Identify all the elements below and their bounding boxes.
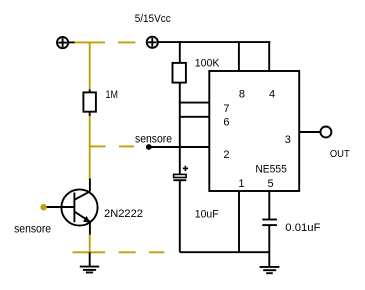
svg-text:6: 6	[223, 117, 229, 129]
wire pin 6	[179, 116, 209, 118]
svg-text:8: 8	[239, 89, 245, 101]
svg-text:0.01uF: 0.01uF	[285, 222, 320, 234]
wire pin 5 down	[268, 191, 270, 220]
svg-text:4: 4	[269, 89, 275, 101]
wire sensore dashed yellow	[90, 145, 134, 147]
capacitor C1 10uF electrolytic	[183, 166, 188, 171]
terminal T2 (circle with plus, 5/15Vcc)	[147, 37, 158, 48]
wire ground drop left	[89, 252, 91, 266]
svg-text:2N2222: 2N2222	[104, 208, 143, 220]
wire 100K down to capacitor C1	[179, 83, 181, 175]
svg-text:1M: 1M	[106, 89, 118, 101]
svg-text:10uF: 10uF	[195, 208, 219, 220]
svg-text:5: 5	[267, 178, 273, 190]
wire drop to 100K	[179, 42, 181, 63]
wire stub from T1	[68, 41, 75, 43]
wire left branch yellow (top rail to 1M)	[89, 42, 91, 90]
svg-text:OUT: OUT	[330, 149, 350, 160]
wire 1M down to transistor	[89, 116, 91, 179]
wire pin 7	[179, 102, 209, 104]
terminal OUT circle	[320, 127, 331, 138]
svg-text:2: 2	[223, 149, 229, 161]
capacitor C2 0.01uF	[262, 220, 277, 226]
wire below C1 to bottom rail	[179, 180, 181, 252]
svg-text:1: 1	[238, 178, 244, 190]
wire pin8 drop	[238, 42, 240, 71]
transistor Q1 2N2222	[61, 189, 97, 225]
wire pin 3 out	[299, 131, 320, 133]
wire bottom rail yellow dashed	[73, 251, 165, 253]
resistor R2 1M	[89, 90, 91, 93]
svg-text:sensore: sensore	[14, 222, 51, 236]
wire bottom rail black	[180, 251, 269, 253]
op-amp U1 NE555 box	[209, 71, 299, 191]
ground right	[260, 267, 280, 273]
svg-text:100K: 100K	[195, 58, 220, 70]
terminal T1 (circle with plus, top-left)	[57, 37, 68, 48]
svg-text:3: 3	[285, 134, 291, 146]
svg-text:5/15Vcc: 5/15Vcc	[135, 13, 171, 25]
node sensore (pin2 junction dot)	[146, 144, 152, 150]
wire pin 1 down	[238, 191, 240, 252]
wire pin4 drop	[268, 41, 270, 71]
svg-text:7: 7	[223, 103, 229, 115]
wire pin 2 black	[149, 146, 210, 148]
node sensore terminal dot (yellow)	[40, 204, 46, 210]
emitter arrow	[83, 216, 90, 223]
svg-text:NE555: NE555	[255, 164, 286, 176]
ground left	[80, 267, 99, 273]
wire below C2 to ground	[268, 225, 270, 266]
wire top rail (T2 to pin4 drop)	[158, 41, 270, 43]
wire top dashed (T1 to T2, yellow)	[75, 41, 136, 43]
wire emitter yellow to bottom rail	[89, 235, 91, 253]
resistor R1 100K	[173, 63, 186, 83]
svg-text:sensore: sensore	[135, 132, 172, 146]
